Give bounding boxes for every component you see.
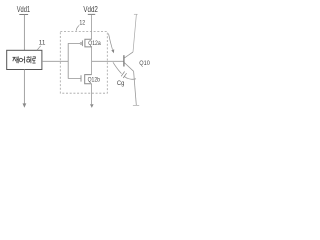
wire Vdd1 to control box xyxy=(23,15,25,51)
capacitor Cg plates xyxy=(121,72,126,79)
control circuit block 11 xyxy=(7,50,42,69)
wire gate rail xyxy=(67,44,69,79)
pointer arrowhead xyxy=(111,49,114,53)
wire control box to gate rail xyxy=(42,60,69,62)
emitter terminal tick xyxy=(133,105,139,107)
wire control box down xyxy=(23,70,25,105)
collector terminal tick xyxy=(134,13,138,15)
svg-text:Vdd2: Vdd2 xyxy=(83,5,98,14)
label control circuit (Korean 제어 회로) xyxy=(13,56,36,63)
transistor Q12b (NMOS) channel xyxy=(85,75,92,84)
transistor Q12a (PMOS) channel xyxy=(85,39,92,47)
driver block 12 dashed box xyxy=(60,32,107,94)
wire Q12a gate xyxy=(68,43,80,45)
svg-text:12: 12 xyxy=(79,19,85,26)
transistor Q10 collector diagonal xyxy=(124,52,133,58)
arrowhead control box down xyxy=(23,103,27,107)
transistor Q12a gate bar xyxy=(81,40,83,46)
svg-text:Q12a: Q12a xyxy=(88,40,101,47)
leader line for 11 xyxy=(37,46,41,50)
wire Q12b gate xyxy=(68,77,81,79)
wire Q12b source down xyxy=(91,84,93,104)
svg-text:Cg: Cg xyxy=(117,80,125,87)
wire output node (Q12a drain to Q12b drain) xyxy=(91,47,93,75)
transistor Q12a gate bubble xyxy=(80,43,82,45)
capacitor Cg arc lower segment xyxy=(124,76,136,79)
power Vdd2 terminal bar xyxy=(88,13,95,15)
arrowhead Q12b source xyxy=(90,104,94,108)
svg-text:Q12b: Q12b xyxy=(88,76,101,83)
wire Q10 collector riser xyxy=(133,14,136,52)
wire Vdd2 down to Q12a source xyxy=(91,14,93,39)
transistor Q10 emitter diagonal xyxy=(124,63,133,72)
wire output to Q10 gate xyxy=(92,60,124,62)
leader line for 12 xyxy=(76,25,79,30)
svg-text:Q10: Q10 xyxy=(139,60,150,67)
svg-text:Vdd1: Vdd1 xyxy=(17,5,30,14)
transistor Q10 (IGBT) gate bar xyxy=(123,55,125,66)
svg-text:11: 11 xyxy=(39,40,46,47)
power Vdd1 terminal bar xyxy=(19,14,28,16)
capacitor Cg arc upper segment xyxy=(113,62,122,73)
transistor Q12b gate bar xyxy=(80,75,82,81)
pointer arrow to gate wire xyxy=(109,34,113,50)
wire Q10 emitter riser xyxy=(134,71,137,105)
